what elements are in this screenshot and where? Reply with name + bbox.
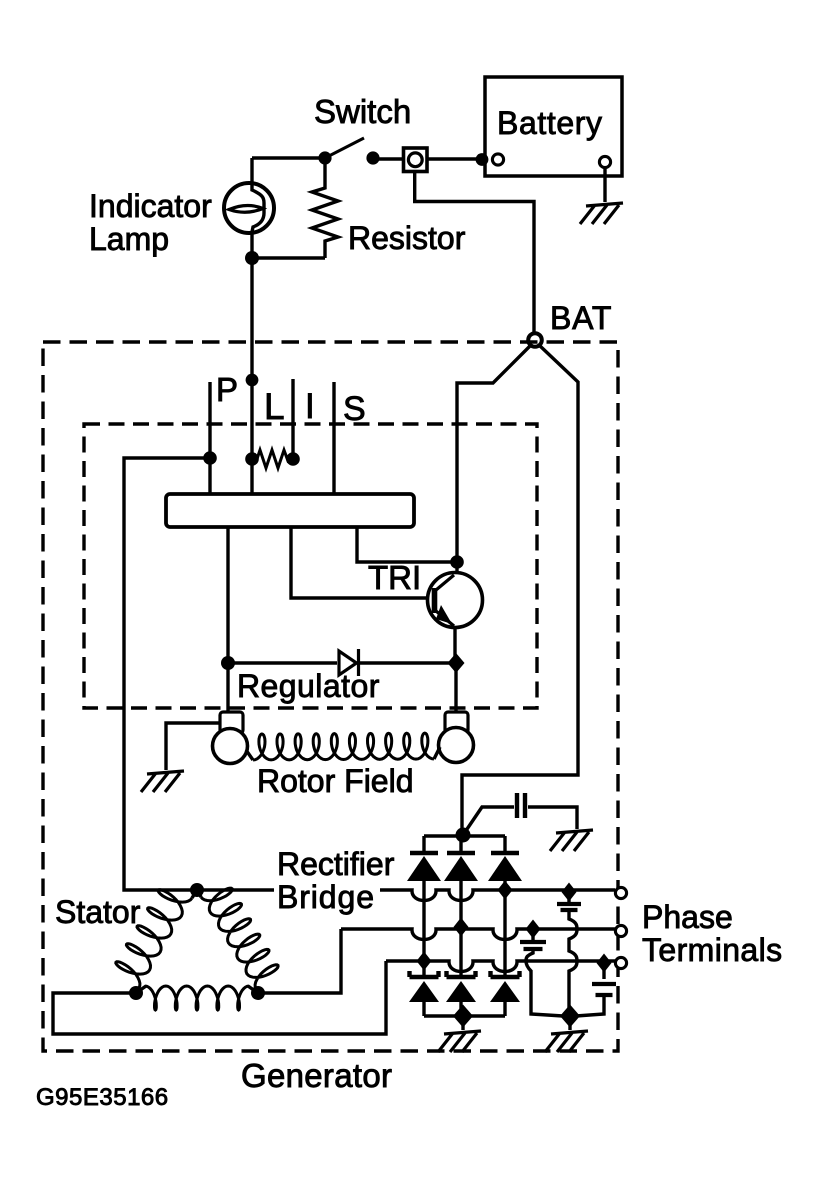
wire emitter to rotor terminal — [454, 663, 457, 713]
label Rectifier Bridge — [274, 884, 380, 912]
svg-text:Bridge: Bridge — [277, 879, 375, 915]
wire string 3 — [503, 881, 506, 975]
wire IC out mid (to TRI base) — [291, 527, 430, 598]
capacitor phase 1 — [567, 892, 570, 902]
node bus2-string2 — [454, 918, 469, 937]
phase terminal 3 — [615, 957, 626, 968]
diode lower 2 — [447, 971, 476, 977]
indicator lamp — [224, 158, 274, 258]
diode upper 1 — [410, 851, 438, 855]
ground rectifier — [438, 1031, 481, 1052]
node emitter junction — [448, 653, 465, 673]
wire field diode row right — [357, 661, 456, 664]
wire phase bus 2 — [341, 929, 615, 940]
node bus2-cap — [526, 920, 541, 939]
node stator bottom-left — [129, 986, 143, 1000]
capacitor (noise suppression) — [517, 793, 525, 818]
node stator top — [190, 883, 204, 897]
wire string 2 stub — [459, 836, 462, 853]
svg-text:Switch: Switch — [314, 93, 411, 130]
wire lower diode 1 stub — [422, 1002, 425, 1016]
wire connector to battery — [427, 157, 483, 160]
node diode row left — [221, 656, 235, 670]
regulator IC box — [166, 494, 414, 527]
wire top rail lamp-to-switch — [252, 156, 325, 159]
wire cap1 down — [569, 911, 577, 1016]
generator enclosure (dashed) — [43, 342, 618, 1051]
wire P to stator riser — [124, 458, 210, 890]
svg-text:Generator: Generator — [241, 1057, 392, 1094]
wire ground bus down — [461, 1016, 464, 1030]
wire diode row left down — [226, 663, 229, 713]
connector (fusible link) — [404, 148, 428, 172]
rotor slip ring right — [439, 728, 474, 763]
svg-text:Rotor Field: Rotor Field — [257, 763, 414, 799]
wire string 1 stub — [422, 836, 425, 853]
wire stator top-left stub — [192, 890, 197, 898]
diode (field flyback) — [339, 649, 359, 676]
ground capacitors — [545, 1031, 588, 1052]
node bus3-string1 — [417, 952, 432, 971]
wire cap3 down — [576, 996, 604, 1016]
svg-text:S: S — [343, 390, 366, 428]
resistor (L-I sense) — [252, 450, 293, 468]
node collector — [450, 555, 464, 569]
wire stator bottom-left stub — [136, 986, 146, 993]
svg-text:Rectifier: Rectifier — [277, 846, 395, 882]
wire stator top-right stub — [197, 890, 201, 897]
wire BAT left branch — [457, 345, 531, 560]
ground battery — [580, 203, 623, 224]
svg-text:L: L — [264, 386, 285, 427]
wire switch to connector — [373, 157, 404, 160]
svg-text:Battery: Battery — [497, 105, 603, 141]
wire lower diode 3 stub — [503, 1002, 506, 1016]
svg-text:I: I — [305, 387, 315, 426]
battery - terminal — [599, 156, 610, 167]
wire cap2 down — [526, 948, 563, 1016]
transistor TRI — [428, 562, 483, 663]
wire P terminal — [208, 382, 211, 494]
svg-text:TRI: TRI — [368, 559, 421, 596]
svg-text:Stator: Stator — [55, 894, 141, 930]
wire phase bus 1 (stator top to terminal) — [197, 890, 615, 901]
wire rectifier ground bus — [424, 1014, 505, 1017]
wire rectifier top bus — [424, 834, 505, 837]
capacitor phase 2 — [531, 929, 534, 940]
battery + terminal — [492, 154, 503, 165]
svg-text:G95E35166: G95E35166 — [36, 1084, 169, 1111]
diode lower 3 — [491, 971, 520, 977]
wire S terminal — [332, 382, 335, 494]
wire string 3 stub — [503, 836, 506, 853]
stator winding bottom — [145, 986, 249, 1010]
wire brush to ground — [166, 723, 221, 770]
wire capacitor to ground tee — [528, 807, 577, 829]
ground rotor — [141, 771, 184, 792]
node stator bottom-right — [251, 986, 265, 1000]
node battery feed — [476, 153, 489, 166]
wire I terminal — [291, 379, 294, 459]
node P junction — [203, 451, 217, 465]
wire to noise capacitor — [463, 807, 514, 835]
wire stator bottom-left to bus 3 — [53, 961, 386, 1034]
svg-text:Terminals: Terminals — [642, 932, 783, 968]
rotor slip ring left — [213, 729, 248, 764]
wire stator bottom-right stub — [248, 986, 258, 993]
wire cap junction to ground — [568, 1016, 571, 1030]
phase terminal 2 — [615, 925, 626, 936]
node bus1-string3 — [498, 881, 513, 900]
node bus1-cap — [562, 883, 577, 902]
switch — [318, 138, 379, 165]
wire string 2 — [459, 881, 462, 975]
wire field diode row left — [228, 661, 337, 664]
wire lamp/resistor bottom junction — [252, 256, 325, 259]
diode lower 1 — [410, 971, 439, 977]
resistor R1 (lamp shunt) — [312, 158, 338, 258]
node L top — [246, 374, 259, 387]
svg-text:BAT: BAT — [550, 300, 612, 336]
node I junction — [286, 452, 300, 466]
node rectifier feed — [456, 828, 471, 843]
node BAT terminal — [528, 333, 542, 347]
node ground bus — [453, 1005, 473, 1028]
wire BAT right branch — [462, 345, 578, 835]
rotor brush right — [445, 712, 468, 733]
capacitor phase 3 — [602, 963, 605, 979]
svg-text:Phase: Phase — [642, 899, 733, 935]
svg-text:Indicator: Indicator — [89, 188, 212, 224]
node cap ground junction — [560, 1005, 580, 1028]
wire IC out right (to TRI collector) — [357, 527, 457, 562]
diode upper 3 — [491, 851, 519, 855]
wire rotor coil stub left — [246, 750, 253, 760]
wire phase bus 3 — [386, 961, 615, 972]
regulator enclosure (dashed) — [84, 424, 537, 708]
svg-text:P: P — [216, 371, 238, 408]
stator winding left — [116, 890, 192, 988]
rotor field coil — [253, 733, 434, 760]
svg-text:Lamp: Lamp — [89, 221, 169, 257]
wire connector to BAT — [415, 171, 534, 334]
wire stator bottom-right to bus 2 — [258, 929, 341, 993]
wire string 1 — [422, 881, 425, 975]
wire rotor coil stub right — [434, 747, 440, 759]
node junction lamp-resistor — [245, 251, 259, 265]
svg-text:Resistor: Resistor — [348, 220, 466, 256]
wire lower diode 2 stub — [459, 1002, 462, 1016]
node bus3-cap — [597, 954, 612, 973]
wire battery to ground — [603, 168, 606, 202]
phase terminal 1 — [615, 887, 626, 898]
ground capacitor — [550, 830, 593, 851]
wire IC out left — [226, 527, 229, 662]
wire L terminal (lamp wire down) — [250, 258, 253, 494]
rotor brush left — [220, 712, 243, 733]
diode upper 2 — [447, 851, 475, 855]
node L junction — [245, 452, 259, 466]
stator winding right — [201, 888, 278, 989]
battery box — [485, 77, 622, 176]
